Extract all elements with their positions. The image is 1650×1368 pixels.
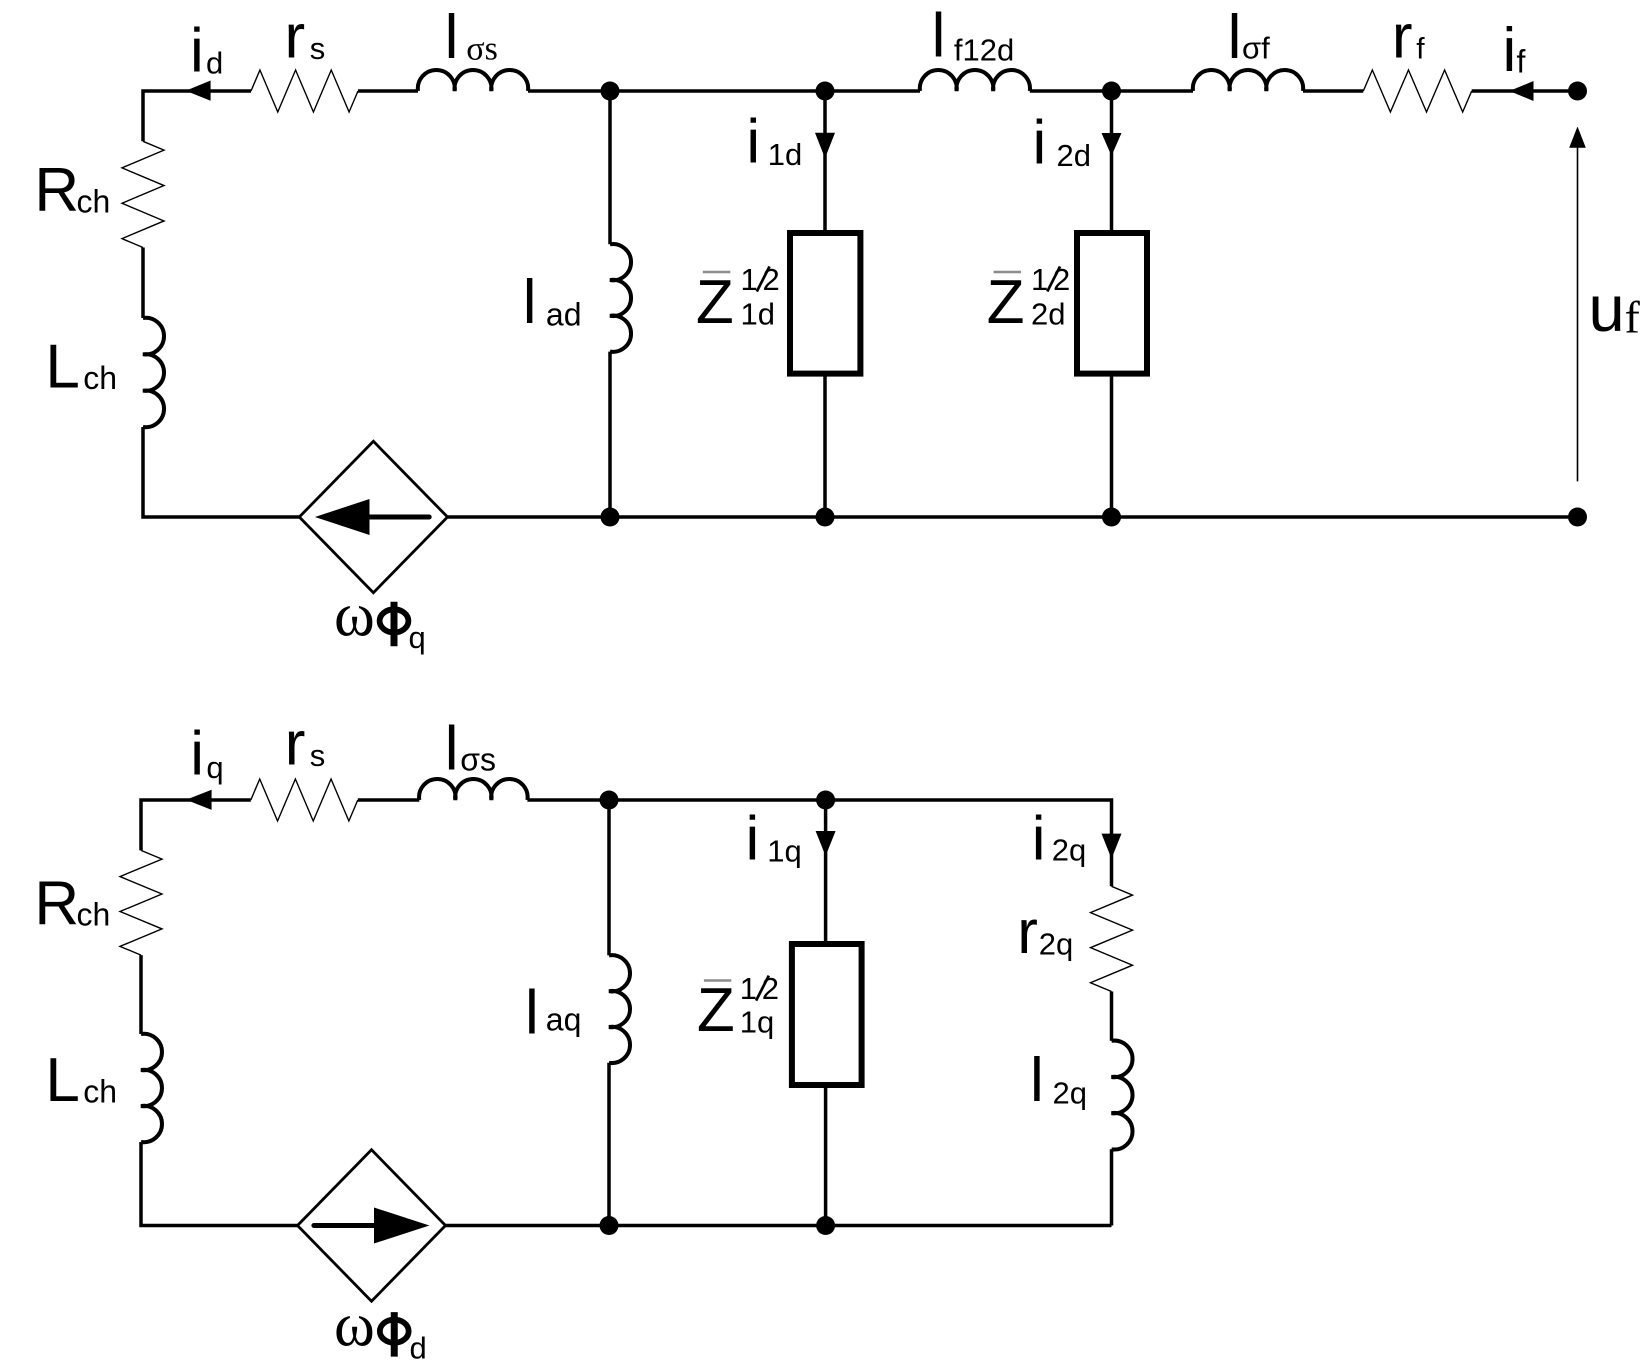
svg-text:Z: Z bbox=[697, 976, 735, 1045]
current arrow i_f bbox=[1510, 81, 1534, 101]
svg-text:σs: σs bbox=[460, 742, 496, 778]
terminal node top right (d-axis) bbox=[1568, 82, 1587, 101]
current arrow i_1q bbox=[816, 831, 836, 856]
inductor l_ad bbox=[610, 244, 631, 352]
svg-text:ad: ad bbox=[546, 296, 582, 332]
svg-text:f: f bbox=[1625, 291, 1641, 342]
wire between l_sf and r_f bbox=[1303, 89, 1363, 93]
svg-text:d: d bbox=[206, 46, 223, 81]
svg-text:2d: 2d bbox=[1057, 138, 1091, 173]
svg-text:l: l bbox=[445, 715, 459, 784]
svg-text:r: r bbox=[1392, 2, 1413, 71]
resistor R_ch (d-axis) bbox=[122, 141, 164, 247]
resistor r_s (d-axis) bbox=[251, 70, 358, 112]
junction node C top (d-axis) bbox=[1102, 82, 1121, 101]
svg-text:ch: ch bbox=[83, 360, 117, 396]
svg-text:q: q bbox=[409, 620, 426, 655]
svg-text:2q: 2q bbox=[1052, 833, 1086, 868]
voltage arrow u_f bbox=[1577, 146, 1579, 481]
svg-text:2q: 2q bbox=[1053, 1075, 1087, 1110]
junction node E bottom (q-axis) bbox=[816, 1216, 835, 1235]
svg-text:l: l bbox=[523, 268, 537, 337]
junction node A bottom (d-axis) bbox=[601, 508, 620, 527]
wire between R_ch and L_ch (q-axis) bbox=[139, 955, 143, 1034]
dependent source diamond omega-phi-q bbox=[299, 441, 447, 592]
svg-text:ch: ch bbox=[77, 897, 111, 933]
svg-text:s: s bbox=[310, 31, 326, 66]
branch wire Z2d lower bbox=[1110, 374, 1114, 517]
svg-text:l: l bbox=[1030, 1046, 1044, 1115]
svg-text:ch: ch bbox=[83, 1073, 117, 1109]
resistor R_ch (q-axis) bbox=[120, 850, 162, 955]
svg-text:1q: 1q bbox=[767, 833, 801, 868]
junction node A top (d-axis) bbox=[601, 82, 620, 101]
current arrow i_2q bbox=[1102, 834, 1122, 859]
svg-text:1: 1 bbox=[1031, 262, 1048, 297]
svg-text:ch: ch bbox=[77, 184, 111, 220]
svg-text:i: i bbox=[1032, 805, 1046, 874]
branch wire l_aq upper bbox=[607, 800, 611, 955]
wire d-axis bottom from source to terminal bbox=[448, 515, 1578, 519]
svg-text:s: s bbox=[310, 738, 326, 773]
svg-text:i: i bbox=[190, 16, 204, 85]
junction node D bottom (q-axis) bbox=[600, 1216, 619, 1235]
svg-text:Z: Z bbox=[987, 268, 1025, 337]
branch wire Z1d lower bbox=[823, 374, 827, 517]
svg-text:1: 1 bbox=[740, 971, 757, 1006]
svg-text:d: d bbox=[410, 1331, 427, 1366]
impedance box Z2d bbox=[1077, 233, 1147, 374]
arrow inside source (pointing right) bbox=[314, 1223, 374, 1228]
junction node E top (q-axis) bbox=[816, 791, 835, 810]
arrow inside source (pointing left) bbox=[370, 515, 430, 520]
svg-text:aq: aq bbox=[546, 1001, 582, 1037]
svg-text:i: i bbox=[1503, 16, 1517, 85]
junction node B bottom (d-axis) bbox=[816, 508, 835, 527]
svg-text:L: L bbox=[45, 333, 79, 402]
svg-text:u: u bbox=[1589, 272, 1625, 345]
wire d-axis bottom-left corner bbox=[143, 427, 299, 517]
svg-text:1d: 1d bbox=[768, 137, 802, 172]
svg-text:2q: 2q bbox=[1039, 927, 1073, 962]
inductor l_aq bbox=[609, 955, 630, 1063]
svg-text:2d: 2d bbox=[1031, 297, 1065, 332]
svg-text:ω: ω bbox=[334, 1292, 375, 1360]
junction node D top (q-axis) bbox=[600, 791, 619, 810]
svg-text:R: R bbox=[34, 869, 79, 938]
branch wire l_ad lower bbox=[608, 352, 612, 517]
svg-text:i: i bbox=[746, 107, 760, 176]
current arrow i_2d bbox=[1102, 133, 1122, 156]
svg-text:ω: ω bbox=[334, 582, 375, 650]
svg-text:i: i bbox=[746, 805, 760, 874]
svg-text:1q: 1q bbox=[740, 1005, 774, 1040]
svg-text:1d: 1d bbox=[741, 297, 775, 332]
inductor L_ch (d-axis) bbox=[143, 318, 164, 427]
resistor r_s (q-axis) bbox=[251, 779, 358, 821]
svg-text:2: 2 bbox=[1053, 262, 1070, 297]
svg-text:Z: Z bbox=[696, 268, 734, 337]
wire q-axis bottom-left corner bbox=[141, 1142, 298, 1226]
wire q-axis bottom from source to right branch bbox=[446, 1224, 1112, 1228]
svg-text:i: i bbox=[190, 720, 204, 789]
svg-text:r: r bbox=[285, 710, 306, 779]
impedance box Z1q bbox=[792, 944, 862, 1085]
svg-text:σf: σf bbox=[1242, 31, 1270, 66]
inductor l_f12d bbox=[920, 70, 1030, 91]
branch wire Z1q lower bbox=[824, 1085, 828, 1226]
label Z1d with overbar, sup 1/2, sub 1d bbox=[703, 271, 730, 273]
svg-text:2: 2 bbox=[763, 262, 780, 297]
branch wire l_ad upper bbox=[608, 91, 612, 244]
svg-text:f12d: f12d bbox=[954, 33, 1014, 68]
resistor r_2q bbox=[1091, 886, 1133, 991]
svg-text:σs: σs bbox=[466, 31, 498, 68]
branch wire l_aq lower bbox=[607, 1063, 611, 1226]
current arrow i_q bbox=[186, 790, 212, 810]
svg-text:2: 2 bbox=[762, 971, 779, 1006]
junction node B top (d-axis) bbox=[816, 82, 835, 101]
svg-text:L: L bbox=[45, 1046, 79, 1115]
inductor l_sigma-s (q-axis) bbox=[419, 779, 528, 800]
label Z2d with overbar, sup 1/2, sub 2d bbox=[994, 271, 1021, 273]
inductor l_sigma-f bbox=[1193, 70, 1303, 91]
wire top d-axis left segment with corner down to R_ch bbox=[143, 91, 251, 141]
current arrow i_d bbox=[186, 81, 211, 101]
junction node C bottom (d-axis) bbox=[1102, 508, 1121, 527]
wire between r_s and l_ss (q-axis) bbox=[358, 798, 420, 802]
wire top d-axis from l_f12d through node C bbox=[1030, 89, 1193, 93]
svg-text:l: l bbox=[445, 3, 459, 72]
wire between r_2q and l_2q bbox=[1110, 992, 1114, 1041]
label Z1q with overbar, sup 1/2, sub 1q bbox=[704, 979, 731, 981]
wire top d-axis from l_ss through node A and node B bbox=[528, 89, 920, 93]
svg-text:r: r bbox=[285, 3, 306, 72]
svg-text:f: f bbox=[1416, 32, 1425, 65]
svg-text:f: f bbox=[1517, 44, 1526, 80]
svg-text:l: l bbox=[1228, 3, 1242, 72]
impedance box Z1d bbox=[790, 233, 860, 374]
inductor l_2q bbox=[1112, 1041, 1133, 1150]
resistor r_f bbox=[1363, 70, 1471, 112]
svg-text:l: l bbox=[932, 2, 946, 71]
branch wire Z1d upper bbox=[823, 91, 827, 233]
wire top d-axis right segment to terminal bbox=[1472, 89, 1578, 93]
current arrow i_1d bbox=[815, 133, 835, 159]
terminal node bottom right (d-axis) bbox=[1568, 508, 1587, 527]
branch wire l_2q lower bbox=[1110, 1149, 1114, 1225]
svg-text:1: 1 bbox=[741, 262, 758, 297]
svg-text:q: q bbox=[206, 750, 223, 785]
inductor l_sigma-s (d-axis) bbox=[418, 70, 528, 91]
wire between R_ch and L_ch (d-axis) bbox=[141, 248, 145, 319]
svg-text:i: i bbox=[1033, 109, 1047, 178]
inductor L_ch (q-axis) bbox=[141, 1034, 162, 1142]
branch wire Z2d upper bbox=[1110, 91, 1114, 233]
svg-text:R: R bbox=[34, 156, 79, 225]
branch wire Z1q upper bbox=[824, 800, 828, 944]
svg-text:r: r bbox=[1017, 898, 1038, 967]
wire top q-axis to right corner bbox=[527, 800, 1111, 886]
svg-text:l: l bbox=[525, 978, 539, 1047]
wire between r_s and l_ss (d-axis) bbox=[358, 89, 418, 93]
dependent source diamond omega-phi-d bbox=[298, 1150, 446, 1301]
wire top q-axis left segment with corner down to R_ch bbox=[141, 800, 251, 850]
